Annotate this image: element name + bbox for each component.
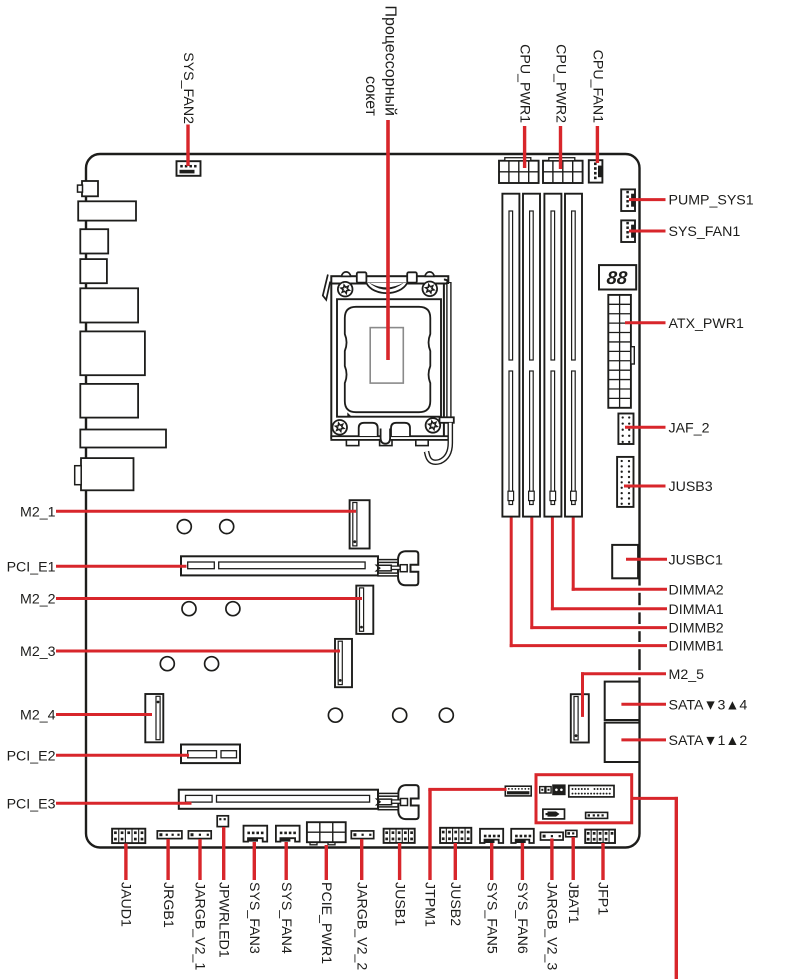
svg-text:DIMMB1: DIMMB1 — [669, 639, 724, 655]
callout M2_1 — [56, 510, 356, 513]
callout SYS_FAN3 — [253, 842, 256, 880]
header JUSB3 — [617, 457, 633, 507]
svg-text:JRGB1: JRGB1 — [160, 882, 176, 928]
red frame box — [536, 775, 632, 823]
callout JTPM1 — [428, 789, 506, 880]
label PCIE_PWR1 — [318, 882, 334, 964]
memory slot DIMMA2 — [565, 194, 582, 517]
callout red frame — [632, 797, 678, 979]
svg-text:SYS_FAN3: SYS_FAN3 — [246, 882, 262, 954]
label M2_1 — [20, 504, 56, 520]
svg-text:M2_3: M2_3 — [20, 644, 56, 660]
PCIe slot PCI_E1 — [181, 556, 378, 575]
label PCI_E1 — [7, 559, 56, 575]
callout JPWRLED1 — [222, 827, 225, 880]
io block usb3 — [80, 259, 107, 283]
label M2_3 — [20, 644, 56, 660]
label SYS_FAN1 — [669, 224, 741, 240]
memory slot DIMMA1 — [544, 194, 561, 517]
svg-text:M2_4: M2_4 — [20, 708, 56, 724]
label JARGB_V2_1 — [192, 882, 208, 970]
svg-text:SATA▼1▲2: SATA▼1▲2 — [669, 733, 748, 749]
fan header SYS_FAN5 — [480, 829, 503, 843]
callout PCI_E1 — [56, 565, 187, 568]
callout DIMMA2 — [572, 518, 667, 591]
label DIMMA2 — [669, 582, 724, 598]
header JARGB_V2_2 — [351, 831, 373, 839]
front panel header JFP1 — [585, 830, 615, 843]
audio header JAUD1 — [112, 829, 145, 843]
label M2_5 — [669, 667, 705, 683]
label JARGB_V2_2 — [353, 882, 369, 970]
CPU socket LGA1700 — [323, 272, 454, 462]
svg-text:сокет: сокет — [362, 76, 379, 117]
callout JBAT1 — [572, 837, 575, 880]
svg-text:JARGB_V2_1: JARGB_V2_1 — [192, 882, 208, 970]
svg-text:CPU_PWR2: CPU_PWR2 — [553, 44, 569, 123]
callout PCIE_PWR1 — [325, 845, 328, 880]
io block lan usb — [80, 288, 138, 322]
svg-text:JUSB1: JUSB1 — [391, 882, 407, 926]
label CPU_FAN1 — [589, 50, 605, 123]
callout JARGB_V2_1 — [198, 839, 201, 880]
label CPU_PWR2 — [553, 44, 569, 123]
callout ATX_PWR1 — [625, 321, 666, 324]
PCI_E1 latch — [377, 551, 419, 585]
svg-text:JAUD1: JAUD1 — [118, 882, 134, 927]
motherboard outline — [86, 154, 640, 848]
svg-text:PCI_E2: PCI_E2 — [7, 748, 56, 764]
PCIe slot PCI_E2 — [181, 745, 240, 764]
callout PCI_E3 — [56, 802, 192, 805]
io ps2 tab — [78, 185, 83, 192]
M.2 slot M2_2 — [356, 586, 373, 634]
label PUMP_SYS1 — [669, 193, 754, 209]
label JARGB_V2_3 — [544, 882, 560, 970]
label JTPM1 — [422, 882, 438, 927]
svg-text:JUSBC1: JUSBC1 — [669, 552, 724, 568]
header JARGB_V2_1 — [188, 831, 211, 839]
label SYS_FAN5 — [483, 882, 499, 954]
io block usb4 — [80, 384, 138, 418]
label SATAv3^4 — [669, 697, 748, 713]
connector SATA12 — [605, 723, 640, 762]
svg-text:JFP1: JFP1 — [595, 882, 611, 915]
debug LED display 88 — [599, 265, 636, 289]
callout M2_2 — [56, 597, 362, 600]
svg-text:CPU_FAN1: CPU_FAN1 — [589, 50, 605, 123]
fan header SYS_FAN1 — [621, 220, 635, 242]
fan header SYS_FAN3 — [244, 826, 268, 842]
pump header PUMP_SYS1 — [621, 189, 635, 211]
svg-text:M2_1: M2_1 — [20, 504, 56, 520]
battery jumper JBAT1 — [566, 830, 577, 836]
M.2 slot M2_4 — [145, 694, 163, 742]
usb header JUSB1 — [384, 829, 415, 843]
memory slot DIMMB2 — [523, 194, 540, 517]
callout JARGB_V2_2 — [360, 839, 363, 880]
M.2 slot M2_5 — [571, 694, 589, 742]
callout JAUD1 — [124, 844, 127, 881]
label JBAT1 — [565, 882, 581, 924]
svg-text:SYS_FAN6: SYS_FAN6 — [514, 882, 530, 954]
io block hdmi — [80, 430, 166, 448]
power connector CPU_PWR2 — [543, 158, 583, 183]
callout PUMP_SYS1 — [629, 198, 666, 201]
svg-text:SYS_FAN5: SYS_FAN5 — [483, 882, 499, 954]
label JUSBC1 — [669, 552, 724, 568]
svg-text:DIMMA2: DIMMA2 — [669, 582, 724, 598]
callout M2_5 — [581, 672, 666, 717]
label JPWRLED1 — [215, 882, 231, 958]
svg-text:PCIE_PWR1: PCIE_PWR1 — [318, 882, 334, 964]
callout CPU_PWR1 — [523, 126, 526, 168]
label JUSB1 — [391, 882, 407, 926]
PCI_E3 latch — [377, 785, 419, 819]
svg-text:CPU_PWR1: CPU_PWR1 — [517, 44, 533, 123]
callout SATA34 — [621, 703, 666, 706]
label JUSB2 — [447, 882, 463, 926]
header JRGB1 — [157, 831, 182, 839]
svg-text:JARGB_V2_2: JARGB_V2_2 — [353, 882, 369, 970]
PCIe slot PCI_E3 — [179, 790, 378, 809]
callout SYS_FAN2 — [186, 125, 189, 167]
callout JARGB_V2_3 — [550, 839, 553, 881]
svg-text:SYS_FAN2: SYS_FAN2 — [180, 52, 196, 124]
svg-text:JPWRLED1: JPWRLED1 — [215, 882, 231, 958]
svg-text:JARGB_V2_3: JARGB_V2_3 — [544, 882, 560, 970]
usb header JUSB2 — [440, 828, 471, 843]
callout SYS_FAN5 — [490, 843, 493, 880]
callout DIMMB2 — [530, 518, 667, 630]
svg-text:M2_2: M2_2 — [20, 592, 56, 608]
io audio notch — [75, 466, 82, 485]
io block usb top — [78, 201, 136, 220]
label JAUD1 — [118, 882, 134, 927]
fan header SYS_FAN6 — [511, 829, 534, 843]
label PCI_E2 — [7, 748, 56, 764]
fan header SYS_FAN4 — [276, 826, 300, 842]
svg-text:JBAT1: JBAT1 — [565, 882, 581, 924]
callout JUSB1 — [398, 843, 401, 880]
callout SYS_FAN6 — [521, 843, 524, 880]
callout JUSBC1 — [626, 558, 667, 561]
fan header CPU_FAN1 — [589, 160, 603, 182]
header JARGB_V2_3 — [541, 832, 564, 840]
label CPU socket — [362, 6, 398, 117]
power connector PCIE_PWR1 — [307, 822, 346, 845]
svg-text:PCI_E1: PCI_E1 — [7, 559, 56, 575]
label PCI_E3 — [7, 796, 56, 812]
header JPWRLED1 — [217, 816, 228, 827]
svg-text:Процессорный: Процессорный — [381, 6, 398, 116]
front panel connector group — [540, 784, 614, 819]
fan header SYS_FAN2 — [177, 161, 201, 176]
label DIMMB2 — [669, 621, 724, 637]
M.2 slot M2_3 — [335, 639, 352, 687]
label ATX_PWR1 — [669, 316, 745, 332]
callout DIMMB1 — [510, 518, 667, 648]
svg-text:88: 88 — [606, 267, 629, 288]
svg-text:JTPM1: JTPM1 — [422, 882, 438, 927]
M.2 slot M2_1 — [350, 500, 370, 548]
io block ps2 — [82, 181, 98, 196]
header JTPM1 — [505, 786, 531, 796]
io block audio — [81, 458, 134, 490]
svg-text:DIMMB2: DIMMB2 — [669, 621, 724, 637]
power connector ATX_PWR1 — [608, 295, 634, 408]
label SYS_FAN6 — [514, 882, 530, 954]
label M2_4 — [20, 708, 56, 724]
callout JUSB3 — [624, 485, 666, 488]
callout SYS_FAN1 — [629, 230, 666, 233]
svg-text:JAF_2: JAF_2 — [669, 420, 710, 436]
svg-text:JUSB3: JUSB3 — [669, 479, 713, 495]
memory slot DIMMB1 — [502, 194, 519, 517]
label JAF_2 — [669, 420, 710, 436]
svg-text:M2_5: M2_5 — [669, 667, 705, 683]
connector JUSBC1 — [612, 545, 638, 578]
label JUSB3 — [669, 479, 713, 495]
label CPU_PWR1 — [517, 44, 533, 123]
callout SATA12 — [621, 738, 666, 741]
svg-text:SATA▼3▲4: SATA▼3▲4 — [669, 697, 748, 713]
label DIMMB1 — [669, 639, 724, 655]
label SYS_FAN3 — [246, 882, 262, 954]
callout JAF_2 — [625, 426, 666, 429]
label JRGB1 — [160, 882, 176, 928]
io block usb2 — [80, 229, 108, 253]
callout DIMMA1 — [551, 518, 667, 611]
svg-text:PUMP_SYS1: PUMP_SYS1 — [669, 193, 754, 209]
label SATAv1^2 — [669, 733, 748, 749]
svg-text:PCI_E3: PCI_E3 — [7, 796, 56, 812]
power connector CPU_PWR1 — [499, 158, 539, 183]
header JAF_2 — [618, 414, 633, 445]
svg-text:ATX_PWR1: ATX_PWR1 — [669, 316, 745, 332]
callout CPU socket — [386, 120, 390, 360]
callout JUSB2 — [454, 843, 457, 880]
label M2_2 — [20, 592, 56, 608]
label SYS_FAN4 — [278, 882, 294, 954]
right edge gaps — [636, 586, 643, 678]
connector SATA34 — [605, 682, 640, 720]
label SYS_FAN2 — [180, 52, 196, 124]
svg-text:SYS_FAN4: SYS_FAN4 — [278, 882, 294, 954]
svg-text:JUSB2: JUSB2 — [447, 882, 463, 926]
io block big — [80, 331, 145, 375]
callout SYS_FAN4 — [285, 842, 288, 880]
svg-text:DIMMA1: DIMMA1 — [669, 602, 724, 618]
callout PCI_E2 — [56, 754, 189, 757]
callout JFP1 — [601, 843, 604, 880]
label JFP1 — [595, 882, 611, 915]
standoff holes — [160, 520, 453, 723]
callout M2_3 — [56, 650, 340, 653]
callout JRGB1 — [166, 839, 169, 880]
svg-text:SYS_FAN1: SYS_FAN1 — [669, 224, 741, 240]
callout M2_4 — [56, 713, 152, 716]
callout CPU_FAN1 — [596, 126, 599, 163]
callout CPU_PWR2 — [559, 126, 562, 169]
label DIMMA1 — [669, 602, 724, 618]
